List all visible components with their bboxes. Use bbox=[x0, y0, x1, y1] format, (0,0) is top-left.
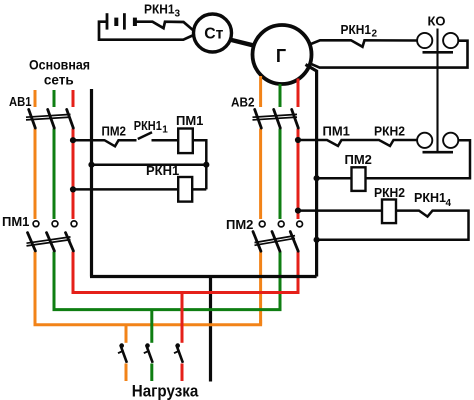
junction dots left bbox=[70, 137, 76, 143]
load switch 1 bbox=[118, 343, 127, 362]
generator machine G bbox=[253, 25, 312, 84]
control line 1 right with contact PM1 and contact RKN2 bbox=[298, 140, 417, 146]
junction dots right bbox=[295, 137, 301, 143]
load switch 2 bbox=[144, 343, 153, 362]
svg-text:РКН2: РКН2 bbox=[374, 123, 405, 138]
svg-text:3: 3 bbox=[175, 9, 181, 20]
contactor PM2 main contacts bbox=[259, 221, 302, 227]
svg-text:ПМ1: ПМ1 bbox=[2, 214, 29, 229]
wire orange phase verticals bbox=[35, 76, 261, 325]
svg-text:4: 4 bbox=[446, 198, 452, 209]
svg-text:Основная: Основная bbox=[29, 58, 90, 73]
neutral bus left bbox=[90, 89, 93, 277]
svg-text:РКН1: РКН1 bbox=[341, 22, 372, 37]
control line 3 right with contact RKN1_4 bbox=[298, 211, 469, 240]
wire loop PM2 coil bbox=[317, 140, 470, 178]
svg-text:Г: Г bbox=[276, 46, 286, 66]
contact RKN1_2 wire from G to KO bbox=[310, 40, 418, 47]
wire red phase verticals bbox=[73, 79, 298, 293]
shaft link St to G bbox=[230, 40, 256, 46]
KO actuator rod bbox=[436, 29, 438, 152]
svg-text:ПМ1: ПМ1 bbox=[323, 123, 350, 138]
neutral bus right from G bbox=[306, 65, 317, 277]
svg-text:РКН2: РКН2 bbox=[374, 185, 405, 200]
coil PM1 bbox=[178, 129, 193, 154]
wire red horizontal to load bbox=[73, 288, 298, 381]
svg-text:ПМ2: ПМ2 bbox=[102, 124, 127, 139]
svg-text:1: 1 bbox=[162, 125, 168, 136]
svg-text:АВ1: АВ1 bbox=[9, 94, 32, 109]
coil RKN2 bbox=[382, 200, 396, 224]
breaker AV2 bbox=[255, 110, 299, 129]
svg-text:КО: КО bbox=[428, 14, 446, 29]
neutral drop to load bbox=[209, 277, 212, 382]
load switch 3 bbox=[174, 343, 183, 362]
svg-text:РКН1: РКН1 bbox=[144, 1, 175, 16]
contact RKN1_3 and wire battery plus to starter bbox=[135, 22, 194, 31]
return wire KO to G bbox=[310, 41, 468, 68]
coil PM2 bbox=[352, 167, 366, 191]
starter machine St bbox=[194, 14, 232, 52]
wire green phase verticals bbox=[54, 84, 280, 310]
svg-text:АВ2: АВ2 bbox=[231, 95, 255, 110]
KO lower bridge contact bbox=[417, 133, 458, 148]
svg-text:Ст: Ст bbox=[204, 26, 223, 43]
breaker AV1 bbox=[29, 110, 74, 129]
svg-text:Нагрузка: Нагрузка bbox=[132, 382, 199, 400]
battery GB bbox=[107, 13, 135, 29]
contactor PM1 main contacts bbox=[33, 221, 77, 227]
KO upper bridge contact bbox=[417, 33, 458, 48]
wire green horizontal to load bbox=[54, 305, 280, 381]
svg-text:ПМ1: ПМ1 bbox=[176, 113, 203, 128]
svg-text:сеть: сеть bbox=[44, 73, 74, 88]
svg-text:2: 2 bbox=[372, 29, 378, 40]
svg-text:ПМ2: ПМ2 bbox=[226, 217, 253, 232]
svg-text:РКН1: РКН1 bbox=[134, 118, 162, 133]
control line 1 left with contact PM2 and contact RKN1_1 bbox=[73, 132, 206, 189]
wire battery minus to starter bbox=[99, 22, 194, 40]
neutral bottom wire bbox=[90, 275, 317, 278]
svg-text:ПМ2: ПМ2 bbox=[345, 152, 372, 167]
coil RKN1 bbox=[178, 177, 192, 202]
wire orange horizontal to load bbox=[35, 320, 261, 381]
svg-text:РКН1: РКН1 bbox=[414, 190, 446, 205]
svg-text:РКН1: РКН1 bbox=[146, 163, 179, 178]
